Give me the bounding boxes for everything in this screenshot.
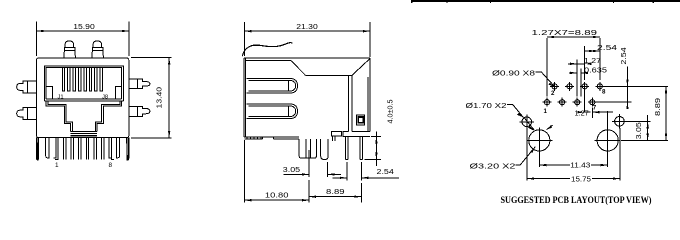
front hook post — [321, 139, 329, 160]
mounting hole Ø3.20 left — [526, 127, 552, 153]
pin 5 — [86, 138, 88, 160]
svg-text:Ø0.90 X8: Ø0.90 X8 — [492, 68, 535, 77]
svg-text:1: 1 — [55, 162, 59, 169]
svg-text:13.40: 13.40 — [155, 87, 164, 109]
dimension 8.89 (side) — [309, 183, 361, 203]
right side latch bump upper — [129, 79, 150, 88]
top inner line — [246, 60, 291, 62]
svg-text:4.0±0.5: 4.0±0.5 — [386, 100, 395, 124]
dimension 8.89 vertical — [604, 86, 668, 140]
dimension 4.0±0.5 — [365, 100, 395, 167]
rear base tab — [332, 132, 342, 136]
contact slots (8) — [62, 68, 102, 91]
svg-text:8: 8 — [109, 162, 113, 169]
jack opening inner border — [46, 68, 121, 99]
svg-text:2: 2 — [551, 90, 555, 97]
rear shelf — [306, 74, 353, 76]
svg-text:3.05: 3.05 — [283, 165, 300, 174]
dimension 0.635 — [569, 65, 607, 96]
opening corner notch right — [115, 87, 121, 100]
svg-text:8.89: 8.89 — [326, 187, 345, 196]
shield window with square hole — [356, 115, 364, 125]
pin holes bottom row (1,3,5,7) — [543, 98, 597, 107]
svg-text:0.635: 0.635 — [584, 65, 607, 74]
jack opening outer border — [44, 66, 123, 101]
bottom edge double line — [244, 136, 299, 138]
dimension 10.80 — [244, 140, 309, 203]
right side latch bump lower — [129, 106, 150, 116]
svg-text:15.75: 15.75 — [571, 174, 591, 183]
dimension 2.54 (side) — [333, 162, 400, 180]
svg-text:10.80: 10.80 — [265, 191, 289, 200]
right edge — [369, 58, 371, 131]
latch spring curve — [242, 43, 292, 57]
leader Ø3.20 X2 — [470, 147, 536, 171]
side latch slot lower — [247, 104, 298, 119]
left side latch bump upper — [17, 81, 37, 93]
dimension 3.05 (side) — [283, 150, 341, 177]
svg-text:1.27: 1.27 — [575, 108, 589, 117]
pin 7 — [102, 138, 104, 160]
LED 2 — [92, 41, 104, 58]
left shield leg — [37, 138, 39, 160]
left shield tab — [46, 138, 49, 158]
dimension 1.27 lower — [575, 91, 614, 118]
svg-text:2.54: 2.54 — [377, 167, 394, 176]
side latch slot upper — [247, 79, 298, 94]
dimension 2.54 vertical — [597, 47, 632, 109]
dimension 15.75 — [527, 128, 620, 183]
side body outline — [244, 58, 370, 139]
right shield leg — [127, 138, 129, 160]
dimension 13.40 — [131, 58, 172, 138]
dimension 1.27 — [568, 56, 601, 96]
svg-text:J1: J1 — [58, 95, 64, 101]
svg-text:21.30: 21.30 — [296, 22, 318, 31]
keyway bottom tab — [71, 131, 97, 137]
svg-text:1.27: 1.27 — [584, 56, 601, 65]
front view body outline — [37, 58, 129, 138]
pin 2 — [63, 138, 65, 160]
svg-text:8: 8 — [602, 89, 606, 96]
dimension 3.05 vertical — [625, 115, 651, 140]
dimension 21.30 — [245, 22, 370, 57]
svg-text:SUGGESTED PCB LAYOUT(TOP VIEW): SUGGESTED PCB LAYOUT(TOP VIEW) — [501, 195, 652, 206]
rear wall double line — [348, 75, 350, 131]
mounting hole Ø1.70 left — [520, 115, 534, 129]
rear base plate — [343, 131, 370, 136]
leader Ø0.90 X8 — [492, 68, 555, 87]
pin 1 — [54, 138, 59, 160]
front post 1 — [299, 139, 316, 158]
opening corner notch left — [46, 87, 52, 100]
leader Ø1.70 X2 — [466, 101, 553, 131]
svg-text:2.54: 2.54 — [619, 47, 628, 64]
svg-text:1.27X7=8.89: 1.27X7=8.89 — [532, 28, 598, 37]
svg-text:2.54: 2.54 — [597, 43, 617, 52]
front pins comb — [37, 138, 129, 160]
keyway steps right — [97, 101, 122, 131]
table fragment bottom edge (top right, cut off) — [411, 0, 680, 3]
left side latch bump lower — [17, 108, 37, 120]
svg-text:Ø1.70 X2: Ø1.70 X2 — [466, 101, 507, 110]
svg-text:7: 7 — [593, 105, 597, 112]
dimension 15.90 — [37, 22, 129, 57]
svg-text:J8: J8 — [102, 95, 108, 101]
pin 3 — [71, 138, 73, 160]
dimension 1.27X7=8.89 — [532, 28, 600, 97]
dimension 2.54 horizontal — [585, 43, 617, 80]
pin 4 — [79, 138, 81, 160]
svg-text:11.43: 11.43 — [570, 161, 590, 170]
opening bottom double line — [46, 98, 121, 100]
LED 1 — [64, 41, 76, 58]
svg-text:3.05: 3.05 — [634, 122, 643, 139]
svg-text:15.90: 15.90 — [73, 22, 95, 31]
svg-text:Ø3.20 X2: Ø3.20 X2 — [470, 161, 516, 170]
svg-text:1: 1 — [544, 108, 548, 115]
fold diagonal — [291, 61, 306, 76]
dimension 11.43 — [539, 152, 607, 170]
pin holes top row (2,4,6,8) — [550, 82, 604, 91]
rear corner diagonal — [352, 59, 370, 76]
pin 6 — [94, 138, 96, 160]
rear pin B — [345, 136, 348, 159]
mounting hole Ø1.70 right — [612, 114, 632, 128]
right shield tab — [116, 138, 119, 158]
pin 8 — [109, 138, 114, 160]
keyway steps left — [46, 101, 70, 131]
rear pin C — [360, 136, 363, 159]
top edge — [244, 57, 370, 59]
svg-text:8.89: 8.89 — [653, 98, 662, 116]
mounting hole Ø3.20 right — [595, 111, 621, 153]
front face double line — [243, 58, 245, 137]
